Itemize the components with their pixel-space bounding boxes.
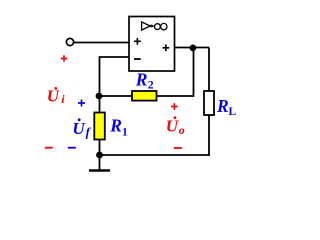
label R2: [135, 70, 154, 92]
ground node junction: [96, 152, 103, 159]
resistor R2: [132, 91, 157, 101]
resistor RL: [204, 91, 214, 115]
node A (inverting input / R1 / R2 junction): [96, 93, 103, 100]
svg-text:R: R: [216, 96, 229, 116]
wire R2 right up to output node: [157, 48, 194, 97]
svg-text:U: U: [166, 117, 179, 136]
wire op-amp output: [175, 47, 210, 49]
label R1: [109, 116, 128, 139]
red - (Ui polarity bottom): [45, 147, 53, 149]
wire R1 bottom to ground node: [99, 140, 101, 156]
input terminal: [66, 38, 73, 45]
wire input terminal to op-amp + input: [74, 42, 129, 44]
red + (Uo polarity top): [171, 103, 178, 110]
label Ui: [47, 87, 65, 106]
wire output to RL top: [208, 48, 210, 92]
label Uf: [72, 118, 91, 139]
blue + (Uf polarity top): [78, 100, 85, 107]
wire node A to R2 left: [99, 95, 132, 97]
svg-text:U: U: [47, 87, 60, 106]
svg-text:R: R: [109, 116, 122, 136]
svg-text:L: L: [229, 106, 237, 118]
svg-text:U: U: [72, 119, 85, 138]
ground: [89, 155, 110, 171]
svg-text:1: 1: [122, 127, 128, 139]
red + (input polarity): [61, 55, 67, 61]
svg-text:2: 2: [148, 80, 154, 92]
svg-text:R: R: [135, 70, 148, 90]
svg-text:o: o: [179, 123, 185, 137]
resistor R1: [94, 113, 105, 140]
blue - (Uf polarity bottom): [68, 147, 76, 149]
label RL: [216, 96, 237, 118]
op-amp U1: [129, 17, 175, 72]
red - (Uo polarity bottom): [174, 147, 182, 149]
wire node A to R1 top: [99, 96, 101, 113]
wire RL bottom to bottom rail: [100, 115, 210, 155]
wire op-amp - input to node A: [100, 57, 130, 96]
label Uo: [166, 116, 185, 137]
output node junction: [190, 45, 197, 52]
